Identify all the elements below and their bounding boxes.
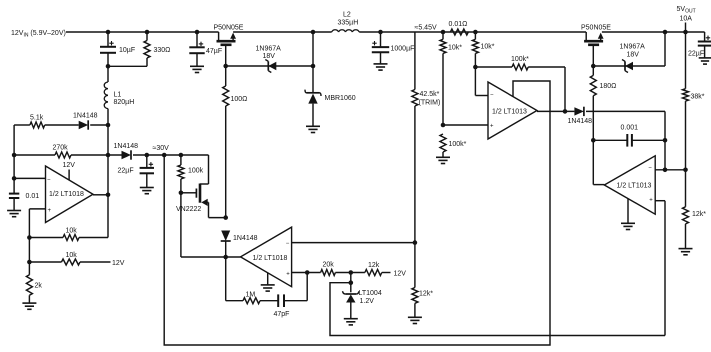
- svg-text:+: +: [490, 124, 494, 130]
- svg-text:270k: 270k: [53, 145, 69, 152]
- svg-text:+: +: [48, 208, 52, 214]
- svg-text:2k: 2k: [35, 283, 43, 290]
- svg-text:47pF: 47pF: [274, 311, 290, 318]
- svg-text:1N4148: 1N4148: [233, 235, 258, 242]
- svg-text:1N967A: 1N967A: [620, 44, 646, 51]
- svg-text:0.01Ω: 0.01Ω: [449, 21, 468, 28]
- svg-text:P50N05E: P50N05E: [214, 25, 244, 32]
- svg-text:100k*: 100k*: [449, 141, 467, 148]
- svg-text:L1: L1: [114, 92, 122, 99]
- svg-text:≈5.45V: ≈5.45V: [415, 25, 437, 32]
- svg-text:100k*: 100k*: [511, 56, 529, 63]
- svg-text:22µF: 22µF: [688, 51, 704, 58]
- svg-text:LT1004: LT1004: [359, 290, 382, 297]
- svg-text:18V: 18V: [263, 53, 276, 60]
- svg-text:20k: 20k: [323, 262, 335, 269]
- svg-text:−: −: [648, 166, 652, 172]
- svg-text:10k*: 10k*: [481, 44, 495, 51]
- svg-text:22µF: 22µF: [118, 168, 134, 175]
- svg-text:330Ω: 330Ω: [154, 47, 171, 54]
- svg-text:≈30V: ≈30V: [153, 145, 170, 152]
- svg-text:12k*: 12k*: [419, 291, 433, 298]
- svg-text:10k*: 10k*: [448, 45, 462, 52]
- svg-text:12V: 12V: [63, 162, 76, 169]
- svg-text:1/2 LT1018: 1/2 LT1018: [253, 255, 288, 262]
- svg-text:10A: 10A: [680, 16, 693, 23]
- svg-text:1000µF: 1000µF: [391, 46, 415, 53]
- svg-text:0.01: 0.01: [26, 193, 40, 200]
- svg-text:1.2V: 1.2V: [360, 298, 375, 305]
- svg-text:5.1k: 5.1k: [30, 115, 44, 122]
- svg-text:MBR1060: MBR1060: [325, 95, 356, 102]
- svg-text:12V: 12V: [394, 271, 407, 278]
- svg-text:+: +: [649, 197, 653, 203]
- svg-text:12k: 12k: [368, 262, 380, 269]
- svg-text:1N4148: 1N4148: [73, 113, 98, 120]
- svg-text:P50N05E: P50N05E: [581, 25, 611, 32]
- svg-text:1N4148: 1N4148: [568, 118, 593, 125]
- svg-text:1/2 LT1013: 1/2 LT1013: [492, 108, 527, 115]
- svg-text:100Ω: 100Ω: [231, 96, 248, 103]
- svg-text:42.5k*: 42.5k*: [420, 91, 440, 98]
- svg-text:L2: L2: [343, 12, 351, 19]
- svg-text:38k*: 38k*: [691, 94, 705, 101]
- svg-text:1M: 1M: [246, 292, 256, 299]
- svg-text:1N967A: 1N967A: [256, 46, 282, 53]
- svg-text:VN2222: VN2222: [176, 206, 201, 213]
- svg-text:180Ω: 180Ω: [600, 83, 617, 90]
- svg-text:12V: 12V: [112, 260, 125, 267]
- svg-text:0.001: 0.001: [621, 125, 639, 132]
- svg-text:−: −: [47, 178, 51, 184]
- svg-text:10k: 10k: [66, 228, 78, 235]
- svg-text:10k: 10k: [66, 252, 78, 259]
- svg-text:+: +: [286, 271, 290, 277]
- svg-text:820µH: 820µH: [114, 99, 135, 106]
- svg-text:12k*: 12k*: [692, 211, 706, 218]
- svg-text:1N4148: 1N4148: [114, 143, 139, 150]
- svg-text:−: −: [490, 93, 494, 99]
- svg-text:18V: 18V: [627, 52, 640, 59]
- svg-text:100k: 100k: [188, 168, 204, 175]
- svg-text:(TRIM): (TRIM): [419, 100, 441, 107]
- svg-text:1/2 LT1013: 1/2 LT1013: [617, 183, 652, 190]
- svg-text:−: −: [286, 241, 290, 247]
- svg-text:1/2 LT1018: 1/2 LT1018: [49, 191, 84, 198]
- svg-text:10µF: 10µF: [119, 47, 135, 54]
- svg-text:47µF: 47µF: [206, 48, 222, 55]
- svg-text:335µH: 335µH: [338, 20, 359, 27]
